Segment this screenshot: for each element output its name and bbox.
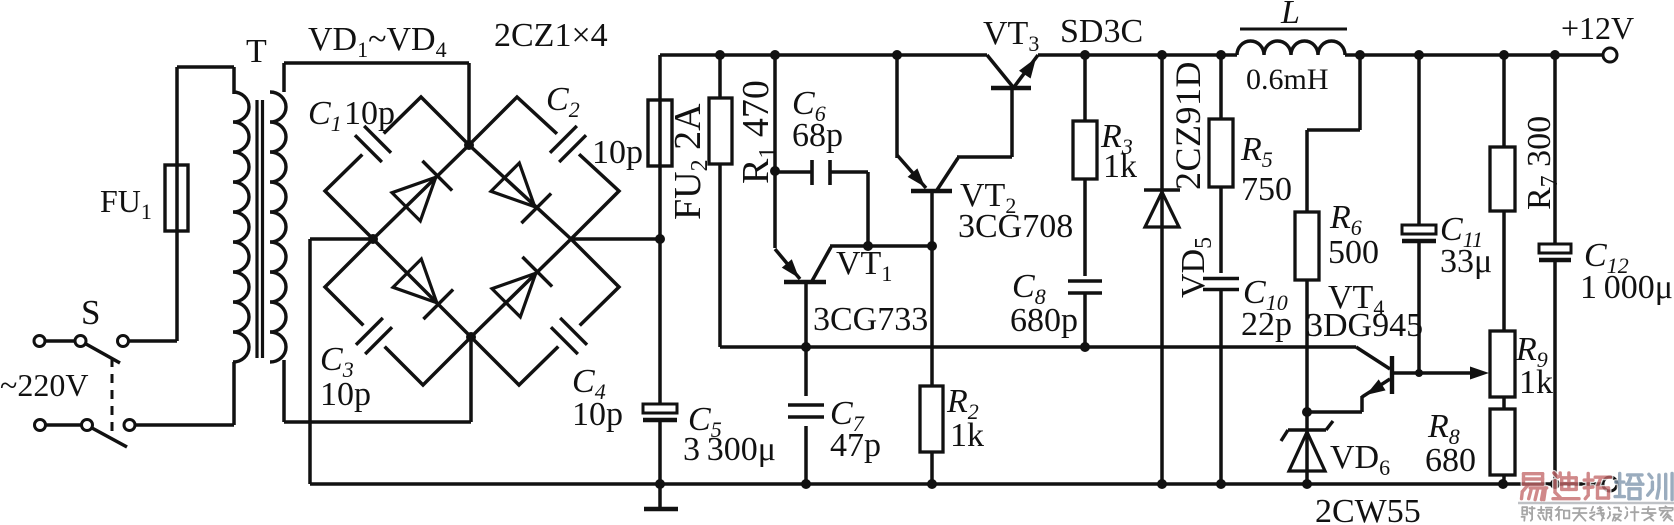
svg-text:680p: 680p [1010,302,1078,339]
svg-text:S: S [81,293,100,332]
svg-text:33μ: 33μ [1440,243,1492,280]
svg-text:10p: 10p [572,396,623,433]
svg-text:+12V: +12V [1561,10,1634,46]
svg-text:~220V: ~220V [0,367,88,403]
svg-text:3 300μ: 3 300μ [683,431,776,468]
svg-text:47p: 47p [830,427,881,464]
svg-text:1k: 1k [1103,148,1137,185]
svg-text:10p: 10p [344,95,395,132]
svg-text:3DG945: 3DG945 [1306,307,1423,344]
svg-text:T: T [246,33,267,70]
svg-text:VD1​~VD4​: VD1​~VD4​ [308,21,447,62]
svg-text:1 000μ: 1 000μ [1580,269,1673,306]
svg-text:3CG733: 3CG733 [813,301,928,338]
svg-text:68p: 68p [792,117,843,154]
svg-text:3CG708: 3CG708 [958,208,1073,245]
svg-text:22p: 22p [1241,306,1292,343]
svg-text:680: 680 [1425,442,1476,479]
svg-text:2CZ91D: 2CZ91D [1168,61,1208,190]
svg-text:1k: 1k [950,417,984,454]
svg-text:2CZ1×4: 2CZ1×4 [494,17,608,54]
svg-text:10p: 10p [320,376,371,413]
svg-text:500: 500 [1328,234,1379,271]
svg-text:SD3C: SD3C [1060,13,1143,50]
svg-text:1k: 1k [1519,364,1553,401]
svg-text:2CW55: 2CW55 [1315,493,1421,525]
svg-text:0.6mH: 0.6mH [1246,63,1329,96]
svg-text:750: 750 [1241,171,1292,208]
svg-text:L: L [1280,0,1300,31]
svg-text:10p: 10p [592,134,643,171]
